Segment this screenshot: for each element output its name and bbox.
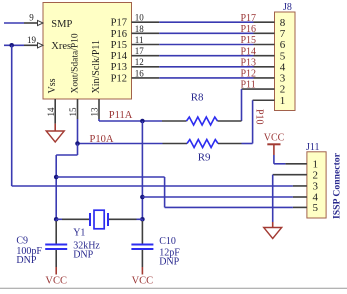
svg-text:VCC: VCC [132,275,154,286]
svg-text:VCC: VCC [45,275,67,286]
svg-text:DNP: DNP [16,255,36,266]
svg-text:12: 12 [135,57,144,67]
svg-text:14: 14 [46,107,56,117]
svg-text:19: 19 [27,35,37,45]
svg-text:Vss: Vss [47,78,58,93]
svg-text:1: 1 [280,95,286,107]
svg-text:11: 11 [135,35,144,45]
svg-text:VCC: VCC [264,133,285,144]
svg-text:DNP: DNP [73,249,93,260]
svg-text:17: 17 [135,46,145,56]
svg-text:10: 10 [135,13,145,23]
svg-text:16: 16 [135,68,145,78]
svg-text:2: 2 [312,169,318,181]
svg-text:9: 9 [29,13,34,23]
svg-text:P12: P12 [241,69,257,80]
svg-text:P13: P13 [111,62,127,73]
svg-text:Xres: Xres [51,41,71,52]
svg-text:P15: P15 [111,40,127,51]
svg-text:Xout/Sdata/P10: Xout/Sdata/P10 [71,33,81,93]
svg-text:13: 13 [90,107,100,117]
svg-text:Y1: Y1 [73,228,85,239]
svg-text:18: 18 [135,24,145,34]
svg-text:P14: P14 [241,46,257,57]
svg-text:ISSP Connector: ISSP Connector [332,152,343,219]
svg-text:P10: P10 [254,109,265,125]
svg-text:P13: P13 [241,57,257,68]
svg-text:DNP: DNP [159,257,179,268]
svg-text:SMP: SMP [51,19,72,30]
svg-text:P16: P16 [241,24,257,35]
svg-text:5: 5 [312,202,318,214]
svg-text:P15: P15 [241,35,257,46]
svg-text:R8: R8 [191,91,204,103]
svg-text:P12: P12 [111,73,127,84]
svg-text:P14: P14 [111,51,128,62]
svg-text:P11A: P11A [109,110,133,121]
svg-text:J11: J11 [306,142,320,153]
svg-text:P17: P17 [241,13,257,24]
svg-text:J8: J8 [283,2,292,13]
svg-text:C10: C10 [159,236,176,247]
svg-text:R9: R9 [198,152,211,164]
svg-text:Xin/Sclk/P11: Xin/Sclk/P11 [91,40,102,94]
svg-text:P17: P17 [111,18,127,29]
svg-text:15: 15 [68,107,78,117]
svg-text:P16: P16 [111,29,127,40]
svg-text:P10A: P10A [90,134,114,145]
